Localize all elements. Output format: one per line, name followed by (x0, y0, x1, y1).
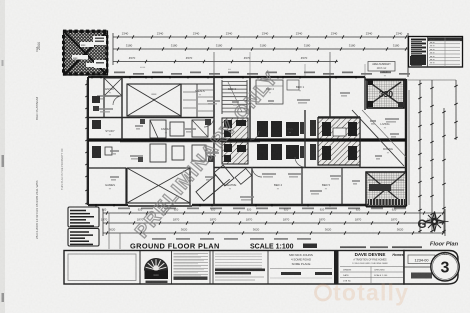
title block client address cell (268, 251, 332, 285)
title block job number cells (404, 251, 438, 285)
plan caption bold row (130, 242, 317, 251)
scan edge artifacts (0, 0, 5, 313)
area summary box above wall (140, 62, 395, 72)
window marks (92, 76, 356, 206)
hall fixtures left (92, 120, 208, 162)
misc plan clutter marks (92, 92, 399, 201)
crossed box living area (127, 84, 181, 116)
central spine wall (88, 140, 406, 142)
small label rows along walls (114, 72, 410, 210)
bathroom core fixtures lower (222, 142, 248, 164)
patio hatched block (366, 172, 406, 206)
staircase rungs (222, 80, 247, 114)
top-right info table (409, 37, 463, 68)
bed outline bed1 (256, 80, 299, 104)
door arcs (113, 96, 305, 177)
robe shelving grid (181, 84, 214, 117)
interior walls vertical (104, 77, 365, 205)
sheet number circle 3 (431, 253, 459, 281)
spa hatched block (367, 80, 404, 108)
left dimension chain (85, 80, 88, 205)
right dimension chains (0, 0, 458, 233)
crossed box small entry (104, 78, 122, 96)
preliminary only watermark (132, 68, 283, 242)
kitchen hatched block (318, 118, 360, 165)
legend note box 1 (68, 207, 99, 227)
robe dark blocks upper (257, 121, 299, 137)
bathroom core fixtures upper (222, 118, 248, 139)
title block logo (145, 259, 169, 284)
title block outer (64, 251, 458, 285)
totally watermark (316, 280, 410, 306)
small label row above caption (152, 238, 311, 240)
floor plan outer walls (88, 77, 409, 207)
title block fineprint column (172, 251, 209, 285)
interior walls horizontal (88, 117, 406, 168)
robe dark blocks lower (257, 144, 299, 160)
raked ceiling diagonal (352, 110, 406, 166)
crossed box alfresco (127, 168, 190, 203)
detail inset block top-left (hatched) (62, 30, 108, 76)
top dimension chains (113, 32, 408, 79)
legend note box 2 (68, 229, 99, 247)
bottom dimension chains (101, 208, 445, 236)
compass north star (418, 212, 449, 232)
left dim rotated labels (0, 0, 3, 1)
title block spec text cell (210, 251, 265, 285)
connector verticals below plan (109, 213, 120, 249)
left margin fax header text (rotated) (35, 42, 64, 239)
title block notes cell (68, 251, 140, 285)
room labels (105, 70, 393, 190)
Floor Plan caption (430, 242, 459, 248)
footnote row above title block (340, 246, 422, 248)
furniture diagonal lounge (194, 165, 252, 202)
title block builder cell (334, 251, 404, 285)
